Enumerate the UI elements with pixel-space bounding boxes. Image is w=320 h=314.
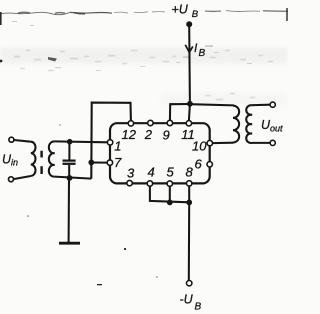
svg-text:5: 5 — [167, 165, 175, 180]
scan artifact: wavy page-edge line across top — [0, 11, 288, 15]
pin 4 — [147, 181, 152, 186]
pin 12 loop wire (pin 12 to pin 7 and input ground rail) — [91, 103, 131, 179]
terminal Uout top — [270, 102, 275, 107]
terminal -UB — [187, 281, 192, 286]
wire to pin 7 — [91, 161, 107, 163]
scan artifact: right edge tick — [286, 8, 287, 21]
wire node to pin 11 — [189, 104, 190, 121]
terminal +UB — [186, 21, 192, 27]
wire to ground — [68, 178, 70, 242]
input transformer T1 primary coil — [31, 142, 36, 176]
input transformer T1 secondary coil — [49, 141, 55, 176]
svg-text:1: 1 — [114, 139, 121, 154]
pin 2 — [148, 120, 153, 125]
svg-text:B: B — [195, 302, 202, 313]
svg-text:10: 10 — [192, 139, 207, 154]
terminal Uin top — [9, 137, 14, 142]
scan artifact: left edge tick — [0, 12, 2, 25]
junction pin7/pin12 net — [88, 160, 94, 166]
svg-text:in: in — [11, 158, 18, 168]
pin 9 — [167, 120, 172, 125]
junction tie pin 8 — [186, 200, 192, 206]
scan artifact: speckle band — [14, 50, 273, 100]
pin 11 — [186, 121, 191, 126]
svg-text:9: 9 — [163, 128, 170, 143]
wire to -UB terminal — [188, 202, 190, 280]
junction capacitor top — [67, 139, 73, 145]
label Uout — [261, 118, 283, 134]
wire pin 5 stub — [169, 186, 171, 202]
svg-text:B: B — [199, 48, 206, 59]
junction supply node — [187, 101, 193, 107]
pin 5 — [167, 181, 172, 186]
terminal Uin bottom — [9, 177, 14, 182]
pin 3 — [127, 180, 132, 185]
output transformer T2 primary coil — [233, 106, 239, 143]
pin 7 — [107, 160, 112, 165]
current arrow IB — [185, 45, 193, 53]
junction capacitor bottom / ground — [67, 175, 73, 181]
label IB — [194, 41, 206, 59]
IC U1 body — [110, 123, 210, 183]
output transformer T2 secondary coil — [246, 105, 252, 143]
pin 1 — [107, 140, 112, 145]
svg-text:2: 2 — [144, 127, 153, 142]
svg-text:4: 4 — [148, 165, 155, 180]
svg-text:12: 12 — [122, 127, 137, 142]
svg-text:B: B — [192, 9, 199, 20]
pin 6 — [207, 162, 212, 167]
wire pin 4 to bottom tie — [150, 186, 189, 202]
scan artifact: faint gray band right — [160, 92, 288, 105]
svg-text:7: 7 — [114, 155, 122, 170]
terminal Uout bottom — [270, 140, 275, 145]
wire secondary bottom to Uout terminal — [252, 142, 270, 144]
ground — [59, 242, 80, 245]
label -UB — [180, 293, 202, 313]
scan artifact: dark smudge — [48, 57, 57, 62]
wire Uin bottom to primary — [13, 176, 30, 179]
wire node to output transformer primary — [190, 104, 234, 105]
capacitor C1 — [63, 142, 76, 178]
wire +UB supply down to node — [188, 25, 191, 104]
label Uin — [2, 153, 18, 168]
wire Uin top to primary — [14, 140, 31, 142]
wire secondary top to Uout terminal — [252, 104, 270, 107]
junction tie pin 5 — [167, 200, 173, 206]
pin 10 — [207, 140, 212, 145]
svg-text:8: 8 — [186, 165, 194, 180]
svg-text:-U: -U — [180, 293, 194, 307]
input transformer T1 core (dashed) — [40, 151, 42, 174]
scan artifact: small specks — [0, 21, 252, 285]
svg-text:+U: +U — [172, 3, 189, 17]
svg-text:6: 6 — [195, 157, 203, 172]
wire secondary top rail to pin 1 — [55, 140, 108, 143]
label +UB — [172, 3, 199, 21]
pin 12 — [128, 121, 133, 126]
svg-text:3: 3 — [127, 166, 135, 181]
wire pin 8 stub — [188, 186, 190, 202]
svg-text:out: out — [270, 124, 283, 134]
wire pin 10 to output transformer primary bottom — [213, 142, 234, 144]
scan artifact: faint gray band — [0, 47, 288, 64]
wire node to pin 9 — [170, 104, 190, 121]
pin 8 — [187, 181, 192, 186]
wire secondary bottom rail — [55, 177, 92, 179]
